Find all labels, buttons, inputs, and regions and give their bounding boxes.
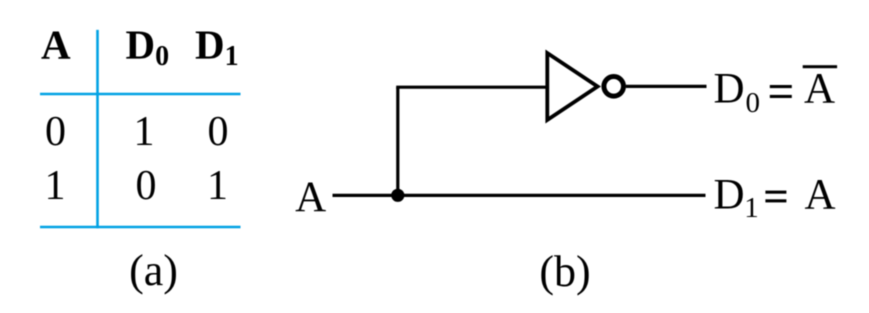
svg-text:D0: D0 — [126, 22, 170, 73]
svg-text:1: 1 — [134, 109, 155, 155]
junction dot — [391, 189, 404, 202]
output label D0 = A-bar — [714, 65, 838, 119]
svg-text:0: 0 — [136, 163, 157, 209]
svg-text:A: A — [804, 172, 835, 219]
svg-text:A: A — [41, 22, 71, 68]
svg-text:0: 0 — [45, 109, 66, 155]
inverter output bubble — [604, 77, 624, 97]
output label D1 = A — [714, 172, 836, 225]
svg-text:1: 1 — [744, 192, 759, 224]
svg-text:D: D — [714, 172, 745, 219]
wire: junction to top branch (vertical) — [396, 87, 399, 195]
svg-text:D: D — [714, 66, 745, 113]
svg-text:(a): (a) — [129, 246, 178, 295]
wire: top branch to inverter input (horizontal) — [396, 86, 547, 89]
svg-text:1: 1 — [207, 163, 228, 209]
svg-text:D1: D1 — [195, 22, 239, 73]
wire: input A to D1 output (horizontal) — [333, 194, 706, 197]
svg-text:1: 1 — [45, 163, 66, 209]
table column divider (cyan vertical line) — [96, 30, 99, 228]
wire: bubble to D0 label (horizontal) — [626, 85, 707, 88]
svg-text:(b): (b) — [539, 247, 590, 296]
inverter U1 triangle — [547, 53, 597, 120]
svg-text:A: A — [804, 66, 835, 113]
table bottom rule (cyan horizontal line) — [40, 226, 241, 229]
svg-text:0: 0 — [746, 87, 761, 119]
table header rule (cyan horizontal line) — [40, 93, 241, 96]
svg-text:A: A — [295, 174, 326, 221]
svg-text:0: 0 — [208, 109, 229, 155]
